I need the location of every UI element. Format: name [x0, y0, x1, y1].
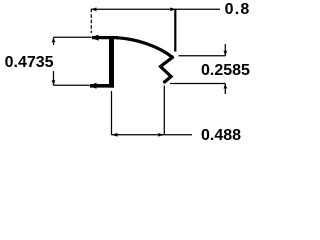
dim 0.8 line [91, 8, 220, 10]
part top flange left arrow tip [91, 35, 99, 41]
dim 0.488 left extension line [111, 91, 113, 135]
part curved arm [116, 38, 173, 58]
dim 0.2585 lower outside line [224, 84, 226, 95]
dim 0.8 left extension line (dashed) [90, 9, 92, 33]
svg-text:0.488: 0.488 [201, 127, 241, 144]
dim 0.4735 bottom arrow [52, 80, 56, 85]
dim 0.4735 vertical line lower segment [53, 71, 55, 85]
part bottom flange left arrow tip [89, 83, 97, 89]
svg-text:0.8: 0.8 [225, 1, 251, 18]
dim 0.8 left arrow [91, 7, 96, 11]
part vertical web [109, 36, 114, 88]
dim 0.2585 lower arrow [224, 84, 228, 89]
svg-text:0.4735: 0.4735 [5, 54, 54, 71]
dim 0.4735 vertical line upper segment [53, 37, 55, 45]
dim 0.8 right arrow [170, 7, 175, 11]
dim 0.8 right extension line [174, 9, 176, 52]
dim 0.488 right arrow [158, 133, 164, 137]
dim 0.488 left arrow [112, 133, 118, 137]
part top flange [92, 36, 118, 39]
dim 0.4735 top extension line [54, 36, 92, 38]
part zigzag break end [161, 57, 173, 82]
svg-text:0.2585: 0.2585 [201, 62, 250, 79]
dim 0.2585 upper outside line [224, 44, 226, 56]
dim 0.488 right extension line [163, 86, 165, 135]
dim 0.4735 top arrow [52, 37, 56, 42]
dim 0.2585 bottom extension line [170, 83, 225, 85]
dim 0.4735 bottom extension line [54, 84, 90, 86]
dim 0.2585 upper arrow [224, 51, 228, 56]
part bottom flange [90, 84, 114, 88]
dim 0.2585 top extension line [179, 55, 226, 57]
dim 0.488 line [112, 134, 193, 136]
